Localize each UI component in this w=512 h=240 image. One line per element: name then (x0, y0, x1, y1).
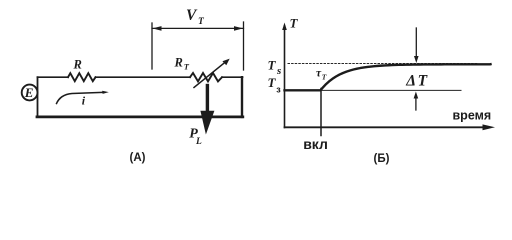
svg-text:(Б): (Б) (374, 153, 390, 165)
delta T upper arrow (415, 28, 417, 58)
thermistor arrow (194, 62, 226, 88)
wire top middle segment (96, 76, 191, 78)
graph x-axis (285, 126, 484, 128)
wire right vertical (241, 77, 243, 117)
svg-text:вкл: вкл (303, 136, 328, 152)
svg-text:з: з (276, 85, 281, 95)
svg-text:T: T (268, 75, 277, 90)
thermistor RT (190, 73, 222, 81)
Tz thin line (321, 89, 461, 91)
svg-text:T: T (184, 62, 190, 72)
source E (22, 85, 38, 101)
label Tz (268, 75, 282, 95)
vkl marker line (320, 89, 322, 136)
svg-text:R: R (73, 57, 82, 71)
wire top right segment (222, 76, 243, 78)
svg-text:(А): (А) (130, 152, 146, 164)
svg-text:T: T (290, 15, 299, 30)
wire bottom (37, 116, 243, 119)
VT dimension line (152, 27, 244, 29)
svg-text:i: i (82, 94, 86, 108)
resistor R (68, 73, 96, 81)
svg-text:V: V (186, 7, 198, 24)
wire left vertical (37, 77, 39, 117)
svg-text:ΔT: ΔT (405, 72, 428, 89)
svg-text:время: время (453, 109, 492, 123)
svg-text:T: T (268, 58, 277, 73)
VT dimension extension line left (151, 23, 153, 69)
svg-text:T: T (198, 17, 205, 27)
svg-text:L: L (195, 137, 202, 147)
svg-text:E: E (24, 85, 34, 100)
label tau T (316, 68, 327, 82)
label RT (174, 55, 190, 71)
Ts dotted line (288, 63, 478, 65)
delta T lower arrow (415, 97, 417, 110)
power arrow PL (206, 86, 209, 113)
label Ts (268, 58, 282, 78)
temperature curve (285, 64, 491, 90)
VT dimension extension line right (243, 22, 245, 70)
wire top left segment (38, 76, 69, 78)
svg-text:R: R (174, 55, 183, 69)
svg-text:s: s (276, 65, 281, 77)
label PL (189, 127, 202, 148)
graph y-axis (284, 26, 286, 128)
current arrow i (57, 92, 106, 103)
label VT (186, 7, 205, 27)
svg-text:T: T (322, 72, 327, 81)
